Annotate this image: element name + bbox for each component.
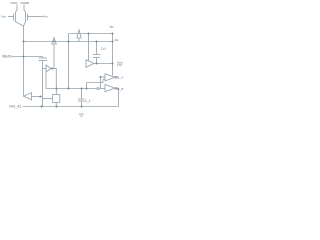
svg-text:VBIAS: VBIAS: [2, 54, 13, 58]
svg-text:RL_A: RL_A: [117, 76, 124, 80]
svg-text:VDD2B: VDD2B: [20, 1, 29, 5]
svg-text:Vo: Vo: [110, 25, 114, 29]
svg-text:Idc: Idc: [115, 38, 120, 42]
svg-text:RL_B: RL_B: [117, 87, 124, 91]
svg-text:VSS_A1: VSS_A1: [9, 104, 21, 108]
svg-text:C_L: C_L: [85, 99, 91, 103]
svg-text:VDD1: VDD1: [10, 1, 18, 5]
svg-text:Vin+: Vin+: [1, 15, 7, 19]
svg-text:Cc1: Cc1: [101, 47, 107, 51]
svg-text:Vin-: Vin-: [44, 15, 49, 19]
svg-text:0.6V: 0.6V: [117, 63, 123, 67]
